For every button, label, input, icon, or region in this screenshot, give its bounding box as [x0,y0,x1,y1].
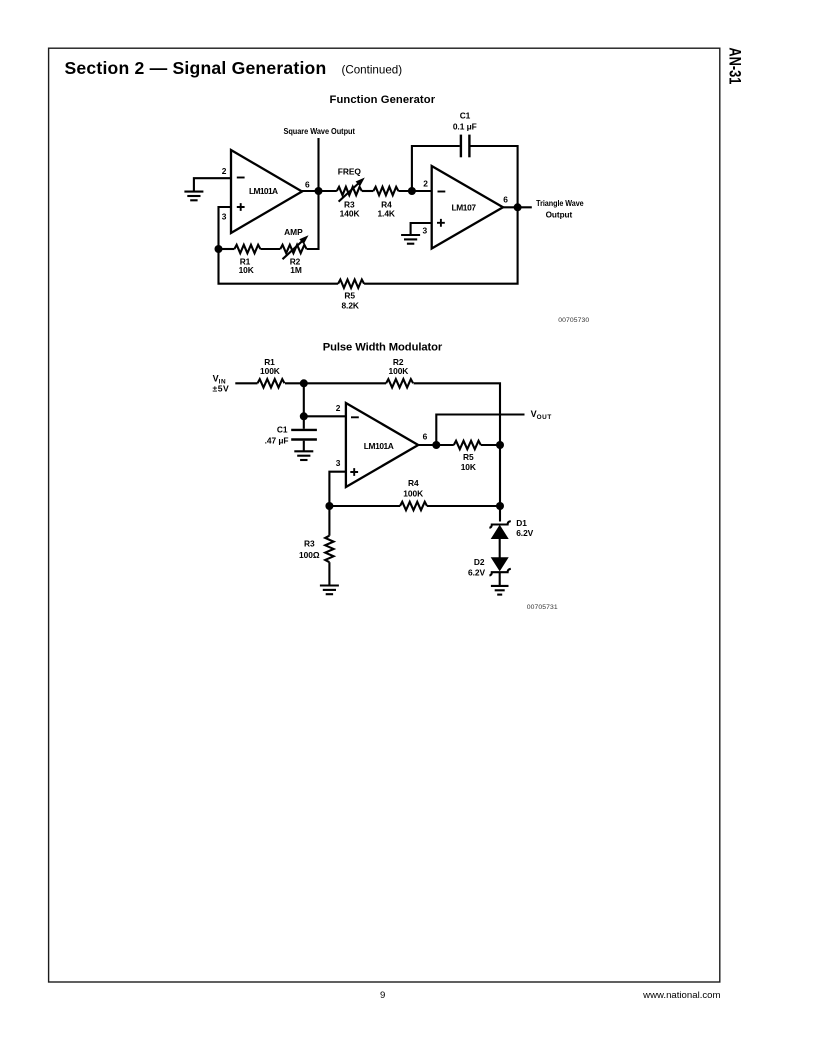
wire: bottom feedback left side to node A [219,249,339,284]
node G junction dot [325,502,333,510]
zener diode D1 6.2V [489,518,533,539]
resistor R4 1.4K [373,187,398,219]
svg-text:www.national.com: www.national.com [642,990,720,1001]
ground G1 at U1 pin 2 [184,192,203,201]
svg-text:00705731: 00705731 [527,604,558,611]
potentiometer R2 1M (AMP) [280,227,308,275]
node E junction dot [300,379,308,387]
wire: node J to D1 [499,506,501,522]
wire: R2 right and down the rail to node I [414,383,500,445]
resistor R5 10K [454,441,481,472]
svg-text:9: 9 [380,990,385,1001]
svg-text:00705730: 00705730 [558,317,589,324]
ground G5 below D2 [491,586,509,595]
svg-text:R5: R5 [344,291,355,301]
node J junction dot [496,502,504,510]
wire: R2 up to node B [307,191,319,249]
svg-text:6.2V: 6.2V [516,528,533,538]
wire: R3 to ground [328,562,330,585]
svg-text:LM107: LM107 [451,202,476,212]
svg-text:Square Wave Output: Square Wave Output [283,126,355,136]
svg-text:3: 3 [222,212,227,222]
ground G2 at U2 pin 3 [401,235,420,244]
svg-text:2: 2 [423,178,428,188]
wire: R3 to R4 [362,190,374,192]
wire: R5 to node I [481,444,500,446]
svg-text:1M: 1M [290,265,302,275]
svg-text:2: 2 [336,403,341,413]
svg-text:2: 2 [222,166,227,176]
svg-text:LM101A: LM101A [249,186,278,196]
svg-text:FREQ: FREQ [338,167,362,177]
wire: U3 pin 3 down to node G [329,472,346,506]
wire: R4 to node J [427,505,500,507]
svg-text:Pulse Width Modulator: Pulse Width Modulator [323,342,443,354]
node B junction dot [315,187,323,195]
svg-text:8.2K: 8.2K [341,300,359,310]
svg-text:3: 3 [336,458,341,468]
svg-text:C1: C1 [277,425,288,435]
resistor R1 100K [258,357,285,387]
op-amp U1 LM101A [231,150,302,233]
svg-text:6: 6 [503,194,508,204]
svg-text:0.1 μF: 0.1 μF [453,121,477,131]
label: Triangle Wave Output [536,198,584,219]
resistor R4 100K [400,478,427,510]
wire: U1 output [302,190,337,192]
capacitor C1 0.1uF [453,111,477,158]
potentiometer R3 140K (FREQ) [337,167,365,219]
resistor R5 8.2K [338,280,364,311]
svg-text:.47 μF: .47 μF [265,436,289,446]
wire: U1 pin 3 down to node A [219,207,232,249]
svg-text:10K: 10K [239,265,254,275]
wire: D2 to ground [499,572,501,586]
wire: U1 pin 2 to ground [194,178,231,191]
svg-text:C1: C1 [460,111,471,121]
capacitor C1 .47uF [265,425,317,446]
wire: VIN input [235,382,257,384]
node D junction dot [514,203,522,211]
svg-text:Section 2 — Signal Generation: Section 2 — Signal Generation [65,58,327,78]
zener diode D2 6.2V [468,557,511,578]
svg-text:(Continued): (Continued) [342,64,403,77]
ground G3 below C1 [294,451,313,460]
wire: C1 to ground [303,441,305,451]
wire: D1 to D2 [499,539,501,558]
wire: square wave output stub [317,138,319,191]
node C junction dot [408,187,416,195]
resistor R3 100ohm [299,506,334,562]
label: VIN +/-5V [213,374,230,394]
svg-text:D2: D2 [474,557,485,567]
resistor R1 10K [219,245,261,275]
svg-text:100K: 100K [388,366,408,376]
node I junction dot [496,441,504,449]
wire: R4 to U2 pin 2 [398,190,431,192]
wire: C1 to right rail down to node D [471,146,518,207]
resistor R2 100K [386,357,413,387]
svg-text:D1: D1 [516,518,527,528]
wire: U2 output to label [503,206,532,208]
svg-text:R3: R3 [304,539,315,549]
op-amp U2 LM107 [432,166,503,249]
svg-text:140K: 140K [340,208,360,218]
wire: U2 pin 3 to ground [411,223,432,235]
wire: node C up to capacitor C1 [412,146,460,191]
node A junction dot [215,245,223,253]
svg-text:6: 6 [305,179,310,189]
wire: node F down to capacitor C1 [303,416,305,429]
wire: rail node I down to node J [499,445,501,506]
wire: U3 output [418,444,454,446]
wire: node H up and right to VOUT [436,415,524,446]
svg-text:AMP: AMP [284,227,303,237]
ground G4 below R3 [320,586,339,595]
svg-text:100Ω: 100Ω [299,550,320,560]
svg-text:R5: R5 [463,452,474,462]
svg-text:100K: 100K [260,366,280,376]
svg-text:100K: 100K [403,489,423,499]
wire: node E down to node F [303,383,305,416]
node F junction dot [300,412,308,420]
svg-text:10K: 10K [461,462,476,472]
svg-text:AN-31: AN-31 [725,47,743,84]
svg-text:1.4K: 1.4K [377,208,395,218]
wire: node G to R4 [329,505,400,507]
wire: R1 through node E to R2 [285,382,386,384]
svg-text:3: 3 [422,225,427,235]
svg-text:R4: R4 [408,478,419,488]
svg-text:Function Generator: Function Generator [330,94,436,106]
svg-text:±5V: ±5V [213,384,230,394]
svg-text:Triangle Wave: Triangle Wave [536,198,584,208]
svg-text:6.2V: 6.2V [468,568,485,578]
wire: node D down right rail to bottom feedback [364,207,517,283]
svg-text:6: 6 [423,432,428,442]
node H junction dot [432,441,440,449]
svg-text:Output: Output [546,209,573,219]
wire: node F to U3 pin 2 [304,415,346,417]
wire: R1 to R2 [260,248,280,250]
op-amp U3 LM101A [346,403,418,487]
svg-text:LM101A: LM101A [364,441,394,451]
